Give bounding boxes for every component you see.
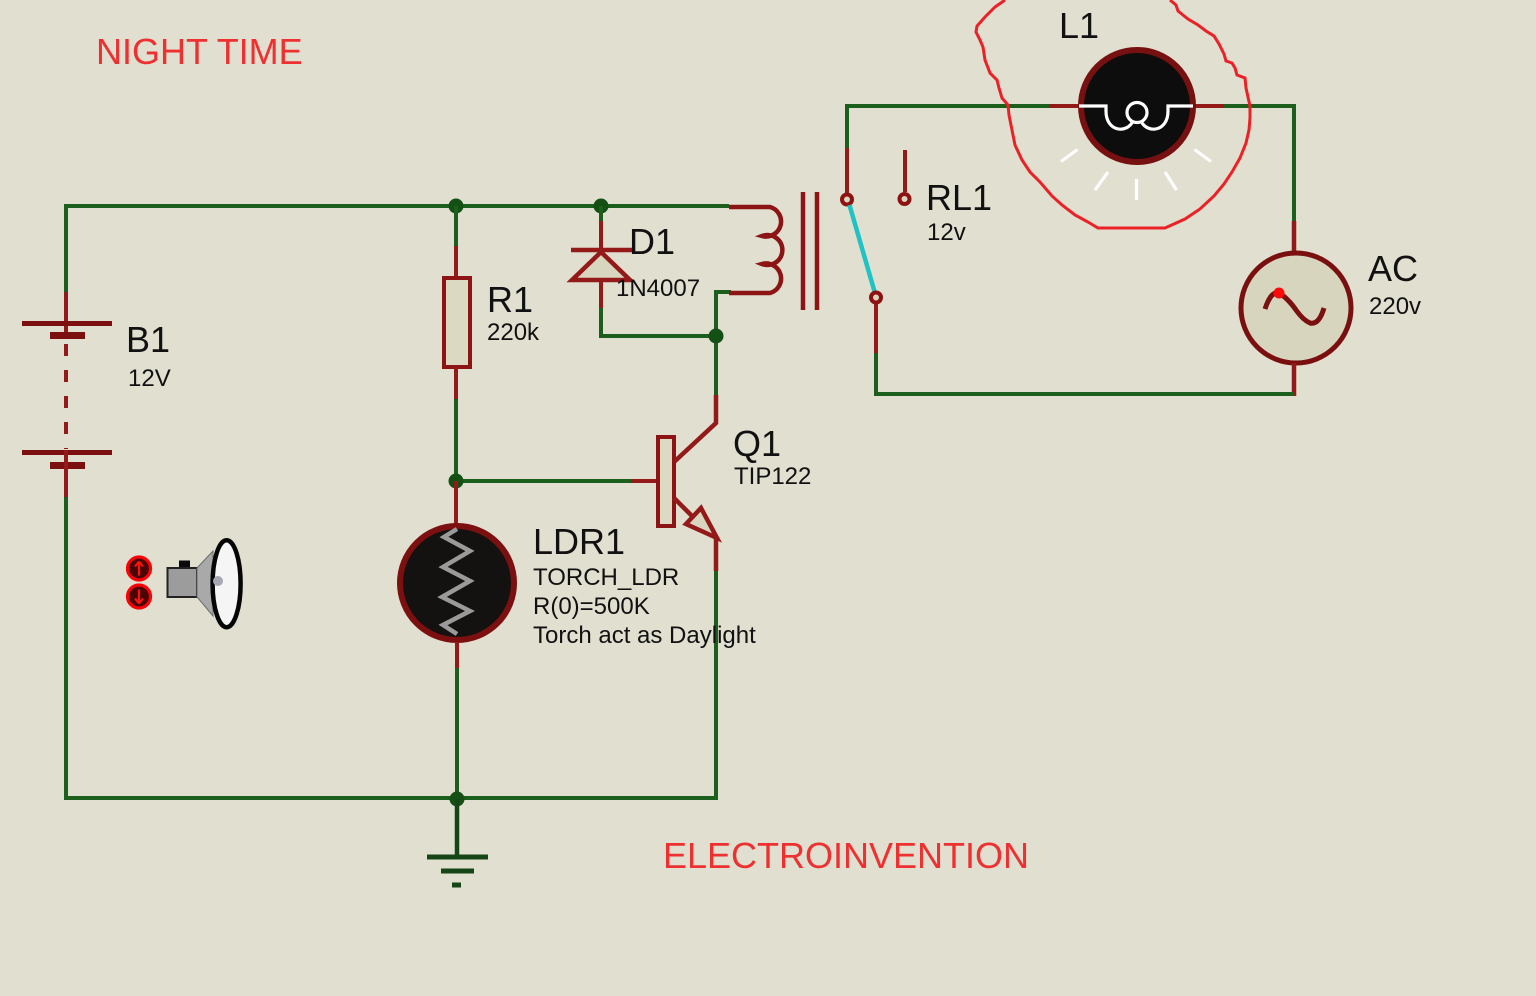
svg-text:RL1: RL1 xyxy=(926,177,992,218)
lamp L1 light rays xyxy=(1061,150,1211,201)
wire: battery B1 negative down and bottom ground rail to Q1 emitter riser xyxy=(66,497,716,798)
LDR1 photoresistor xyxy=(400,526,514,640)
node C junction (D1 / relay coil / Q1 collector) xyxy=(709,329,724,344)
svg-text:220k: 220k xyxy=(487,319,540,346)
node E junction (bottom rail / LDR1 / ground) xyxy=(450,792,465,807)
wire: relay NO contact to AC source bottom rail xyxy=(876,353,1294,394)
lamp L1 glow outline (hand-drawn) xyxy=(976,0,1250,228)
wire: top rail from battery B1 to relay coil (node A, node B on it) xyxy=(66,206,729,294)
wire: diode D1 anode to node C xyxy=(601,308,716,336)
svg-text:220v: 220v xyxy=(1369,293,1421,320)
svg-text:12v: 12v xyxy=(927,219,966,246)
relay RL1 coil xyxy=(729,207,782,293)
relay RL1 switch common pin riser xyxy=(845,148,849,194)
relay RL1 NC pin (unconnected) xyxy=(900,150,910,204)
svg-text:R1: R1 xyxy=(487,279,533,320)
svg-text:TORCH_LDR: TORCH_LDR xyxy=(533,564,679,591)
transistor Q1 xyxy=(630,395,717,571)
svg-text:R(0)=500K: R(0)=500K xyxy=(533,593,650,620)
wire: node D base wire to Q1 xyxy=(456,479,631,483)
svg-text:Torch act as Daylight: Torch act as Daylight xyxy=(533,622,756,649)
svg-text:L1: L1 xyxy=(1059,5,1099,46)
lamp L1 right pin xyxy=(1193,104,1225,108)
AC source V1 xyxy=(1241,253,1351,363)
svg-text:NIGHT TIME: NIGHT TIME xyxy=(96,31,303,72)
torch down button xyxy=(128,585,151,608)
svg-text:1N4007: 1N4007 xyxy=(616,275,700,302)
torch up button xyxy=(128,557,151,580)
lamp L1 left pin xyxy=(1049,104,1081,108)
relay RL1 core xyxy=(803,192,817,310)
wire: node C down to Q1 collector xyxy=(714,336,718,396)
relay RL1 NO contact riser down xyxy=(874,304,878,354)
LDR1 top pin xyxy=(454,481,458,525)
svg-text:12V: 12V xyxy=(128,365,171,392)
node A junction (top rail / R1) xyxy=(449,199,464,214)
svg-text:TIP122: TIP122 xyxy=(734,463,811,490)
svg-text:LDR1: LDR1 xyxy=(533,521,625,562)
LDR1 bottom pin xyxy=(455,642,459,669)
node D junction (R1 / Q1 base / LDR1) xyxy=(449,474,464,489)
wire: lamp L1 to AC source top xyxy=(1224,106,1294,222)
wire: node B to diode D1 cathode xyxy=(599,206,603,222)
battery B1 xyxy=(22,292,112,498)
resistor R1 xyxy=(444,246,470,399)
wire: resistor R1 bottom to node D xyxy=(454,397,458,481)
svg-text:ELECTROINVENTION: ELECTROINVENTION xyxy=(663,835,1029,876)
svg-text:B1: B1 xyxy=(126,319,170,360)
node B junction (top rail / D1) xyxy=(594,199,609,214)
diode D1 xyxy=(571,221,632,309)
wire: relay switch common up to top right rail xyxy=(847,106,1050,148)
AC source bottom pin xyxy=(1292,363,1297,396)
AC source top pin xyxy=(1292,221,1297,254)
relay RL1 switch common contact xyxy=(842,195,852,205)
wire: node C up to relay RL1 coil bottom xyxy=(716,292,731,336)
ground xyxy=(427,799,488,885)
lamp L1 xyxy=(1079,50,1193,162)
torch body xyxy=(168,551,214,616)
svg-text:Q1: Q1 xyxy=(733,423,781,464)
svg-text:D1: D1 xyxy=(629,221,675,262)
torch lens xyxy=(213,540,241,627)
wire: LDR1 bottom to node E xyxy=(455,668,459,798)
relay RL1 switch arm (closed, cyan) xyxy=(850,205,875,292)
svg-text:AC: AC xyxy=(1368,248,1418,289)
relay RL1 switch NO contact xyxy=(871,293,881,303)
wire: node A to resistor R1 top xyxy=(454,206,458,247)
